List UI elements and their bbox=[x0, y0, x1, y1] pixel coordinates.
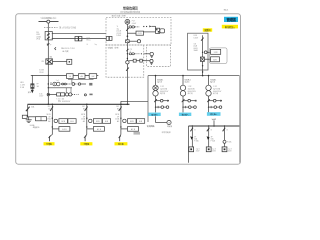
wire: transformer secondary drop bbox=[213, 120, 215, 126]
meter VS bbox=[67, 74, 74, 79]
panel box C2 bbox=[128, 127, 139, 132]
wire: feeder C tail bbox=[120, 135, 121, 137]
relay box R2 bbox=[211, 57, 220, 62]
svg-text:No.1: No.1 bbox=[224, 9, 229, 11]
wire: meter bus bbox=[31, 74, 99, 76]
node: incoming junction at panel bus bbox=[202, 75, 204, 77]
left metering branch LBS2 bbox=[31, 75, 33, 89]
transformer T3 column bbox=[206, 76, 222, 113]
highlight: cyan label T2 bbox=[179, 112, 191, 116]
surge arrester branch bbox=[22, 104, 46, 129]
panel box A2 bbox=[59, 127, 70, 132]
relay enclosure (rounded) bbox=[209, 48, 227, 64]
wire: meter link bbox=[68, 78, 94, 80]
highlight: panel label C bbox=[115, 142, 128, 146]
node: junction main/meter bus bbox=[48, 75, 50, 77]
transformers section bbox=[153, 75, 222, 113]
label: DS ratings bbox=[36, 32, 41, 41]
meter AS bbox=[78, 74, 85, 79]
svg-text:1 φ 3: 1 φ 3 bbox=[228, 148, 232, 150]
svg-text:管理図: 管理図 bbox=[227, 17, 237, 22]
wire: feeder A bbox=[51, 104, 53, 134]
svg-text:(PU): (PU) bbox=[36, 39, 40, 41]
panel box C1 bbox=[128, 119, 137, 124]
load box 1 bbox=[189, 147, 194, 152]
svg-text:1 x 1: 1 x 1 bbox=[56, 80, 60, 82]
annotation: from first pole (dashed) bbox=[44, 27, 58, 29]
aux boxes row bbox=[133, 59, 136, 62]
wire: metering line lower bbox=[52, 37, 106, 39]
CT circle right bbox=[202, 52, 203, 53]
node: LV bus junction feeder 2 bbox=[208, 125, 209, 126]
svg-text:単線結線図: 単線結線図 bbox=[123, 5, 139, 10]
svg-text:1 φ 3: 1 φ 3 bbox=[196, 148, 200, 150]
PCT U1 bbox=[125, 19, 130, 24]
svg-text:210V: 210V bbox=[39, 72, 44, 74]
wire: DB1 vertical bbox=[126, 24, 128, 45]
svg-text:3P: 3P bbox=[194, 136, 196, 138]
wire: feeder B tail bbox=[85, 135, 87, 137]
svg-text:動力用: 動力用 bbox=[188, 92, 193, 95]
lightning arrester gap symbol bbox=[55, 47, 56, 50]
cable head CH2 bbox=[106, 36, 109, 40]
svg-text:G: G bbox=[168, 123, 170, 125]
bus: main LV bus bbox=[28, 103, 130, 105]
svg-text:1φ 6.6: 1φ 6.6 bbox=[157, 82, 162, 84]
kWh meter row 2 bbox=[48, 88, 92, 101]
node: main junction circle bbox=[47, 93, 49, 95]
wire: DB2 vertical bbox=[126, 45, 128, 105]
earthing device circle 2 bbox=[150, 59, 153, 62]
svg-text:接地: 接地 bbox=[28, 91, 32, 94]
svg-text:B2: B2 bbox=[83, 108, 85, 110]
switch: feeder C bbox=[119, 107, 122, 112]
svg-text:電灯用: 電灯用 bbox=[160, 92, 165, 95]
label: DB1 text block bbox=[117, 26, 122, 37]
highlight: yellow note 2 bbox=[203, 28, 212, 32]
fuse link circle bbox=[223, 140, 226, 143]
svg-text:B: B bbox=[211, 129, 212, 131]
wire: panel feed to LV bus bbox=[120, 101, 122, 104]
svg-text:3φ 6.6: 3φ 6.6 bbox=[185, 82, 190, 84]
panel box A1 bbox=[59, 119, 68, 124]
small breaker box on line bbox=[126, 40, 130, 43]
highlight: cyan label T3 bbox=[207, 112, 221, 121]
node: bus junction DB2 drop bbox=[127, 104, 129, 106]
node: bus junction feeder B bbox=[86, 104, 88, 106]
bottom-right LV section bbox=[189, 120, 240, 162]
svg-text:51R: 51R bbox=[214, 52, 218, 54]
fuse F on main feeder bbox=[47, 43, 49, 45]
switch tick right bbox=[201, 38, 204, 41]
CT circle A bbox=[54, 119, 57, 122]
node: panel bus junction T1 bbox=[155, 75, 157, 77]
panel box B1 bbox=[93, 119, 102, 124]
switch tick DB2 bbox=[126, 68, 129, 71]
fuse holder on branch bbox=[31, 84, 34, 89]
receiving cubicle DB2 (dashed) bbox=[106, 45, 144, 77]
svg-text:OCR: OCR bbox=[138, 33, 143, 35]
relay box bbox=[136, 31, 144, 35]
svg-text:3φ 6.6: 3φ 6.6 bbox=[210, 82, 215, 84]
arrester LA1 bbox=[22, 115, 27, 118]
gray note block bbox=[134, 132, 141, 135]
top-right cubicle box bbox=[188, 33, 208, 70]
generator branch bbox=[147, 116, 173, 134]
kWh meter row 1 bbox=[48, 80, 93, 86]
wire: feeder A tail bbox=[50, 135, 53, 137]
breaker MCB A1 labels bbox=[46, 106, 51, 123]
wire: to meter bbox=[53, 60, 67, 62]
LV feeder 2 bbox=[206, 126, 216, 153]
svg-text:38sq: 38sq bbox=[86, 40, 90, 42]
wire: feeder C bbox=[120, 104, 122, 134]
wire: feeder B bbox=[86, 104, 88, 134]
feeder columns A, B, C bbox=[46, 101, 148, 141]
switch tick DB1 bbox=[126, 28, 129, 31]
transformer T3 bbox=[206, 85, 211, 90]
breaker square with X bbox=[200, 57, 204, 61]
earthing device circle 1 bbox=[150, 52, 153, 55]
aux circle bbox=[137, 40, 140, 43]
wire to box A2 bbox=[52, 128, 59, 130]
transformer T2 column bbox=[180, 76, 196, 113]
aux cubicle DB3 (dashed) bbox=[147, 45, 171, 66]
svg-text:52R: 52R bbox=[213, 60, 217, 62]
switch: feeder A bbox=[50, 107, 53, 112]
svg-text:PF: PF bbox=[130, 49, 132, 51]
highlight: panel label B bbox=[80, 142, 92, 146]
ground bbox=[28, 117, 30, 120]
arrester box 2 bbox=[36, 117, 47, 121]
bus: LV panel bus bbox=[189, 125, 240, 127]
svg-text:B2: B2 bbox=[117, 108, 119, 110]
node: right feeder junction 2 bbox=[202, 71, 203, 72]
meter M1 bbox=[67, 59, 72, 64]
svg-text:B: B bbox=[227, 129, 228, 131]
disconnect switch DS (pole) bbox=[45, 32, 52, 40]
node: bus junction main feeder bbox=[48, 104, 50, 106]
switch: feeder B bbox=[85, 107, 88, 112]
node: panel bus junction T3 bbox=[208, 75, 210, 77]
meter kW bbox=[89, 74, 97, 79]
wire: incoming span bbox=[39, 21, 59, 23]
panel box B2 bbox=[93, 127, 104, 132]
transformer T1 column bbox=[153, 76, 169, 113]
LV feeder 3 bbox=[222, 126, 232, 153]
svg-text:6.6kV: 6.6kV bbox=[194, 37, 199, 39]
relay box R1 bbox=[211, 49, 221, 54]
generator G1 bbox=[167, 120, 171, 124]
highlight: cyan label T1 bbox=[148, 112, 160, 116]
wire: metering line upper bbox=[52, 33, 106, 35]
LV feeder 1 bbox=[189, 126, 201, 153]
wire: drop from service point bbox=[47, 23, 49, 31]
meter on line bbox=[126, 61, 129, 64]
cable head CH1 bbox=[75, 37, 78, 41]
fuse marks bbox=[126, 49, 128, 51]
wire: main HV feeder bbox=[47, 40, 49, 105]
CT circle C bbox=[123, 119, 126, 122]
load box 2 bbox=[206, 147, 211, 152]
breaker ELB2 (filled) bbox=[207, 136, 210, 140]
transformer T2 bbox=[180, 85, 185, 90]
transformer T1 bbox=[153, 85, 158, 90]
wire: metering tap bbox=[48, 87, 72, 89]
svg-text:kW: kW bbox=[92, 76, 95, 78]
load box 3 bbox=[222, 147, 227, 152]
svg-text:S2: S2 bbox=[50, 56, 52, 58]
CT circle B bbox=[89, 119, 92, 122]
wire: right feeder vertical bbox=[202, 35, 204, 75]
node: LV bus junction feeder 1 bbox=[192, 125, 193, 126]
node: panel bus junction T2 bbox=[182, 75, 184, 77]
svg-text:7 4 1 1 (8): 7 4 1 1 (8) bbox=[56, 98, 64, 100]
arrow: branch to secondary (down arrow) bbox=[31, 90, 34, 94]
CT pair 2 bbox=[127, 53, 128, 54]
VCT bbox=[156, 28, 160, 33]
node: connection point circle bbox=[47, 20, 50, 23]
circuit breaker CB1 bbox=[46, 56, 53, 64]
CT pair bbox=[129, 26, 132, 28]
svg-text:6.6kV: 6.6kV bbox=[117, 35, 122, 37]
node: bus junction feeder C bbox=[120, 104, 122, 106]
label: LBS2 bbox=[20, 82, 25, 89]
svg-text:B: B bbox=[194, 129, 195, 131]
svg-text:1 φ 3: 1 φ 3 bbox=[212, 148, 216, 150]
sheet border bbox=[16, 14, 241, 164]
main transformer panel box bbox=[148, 76, 240, 163]
svg-text:3P: 3P bbox=[211, 136, 213, 138]
svg-text:PAS SOG 7.2kV: PAS SOG 7.2kV bbox=[61, 47, 75, 50]
highlight: panel label A bbox=[44, 142, 55, 146]
node: right feeder junction 1 bbox=[202, 65, 203, 66]
node: bus junction feeder A bbox=[52, 104, 54, 106]
svg-text:動力用: 動力用 bbox=[213, 92, 218, 95]
breaker ELB1 (filled) bbox=[190, 136, 193, 140]
diode symbol bbox=[149, 25, 151, 27]
svg-text:B2: B2 bbox=[48, 108, 50, 110]
highlight: cyan management box bbox=[224, 17, 238, 22]
node: LV bus junction feeder 3 bbox=[224, 125, 225, 126]
metering cubicle DB1 (dashed) bbox=[106, 17, 171, 45]
highlight: yellow note 1 bbox=[222, 25, 238, 29]
svg-text:発電機: 発電機 bbox=[167, 125, 172, 128]
